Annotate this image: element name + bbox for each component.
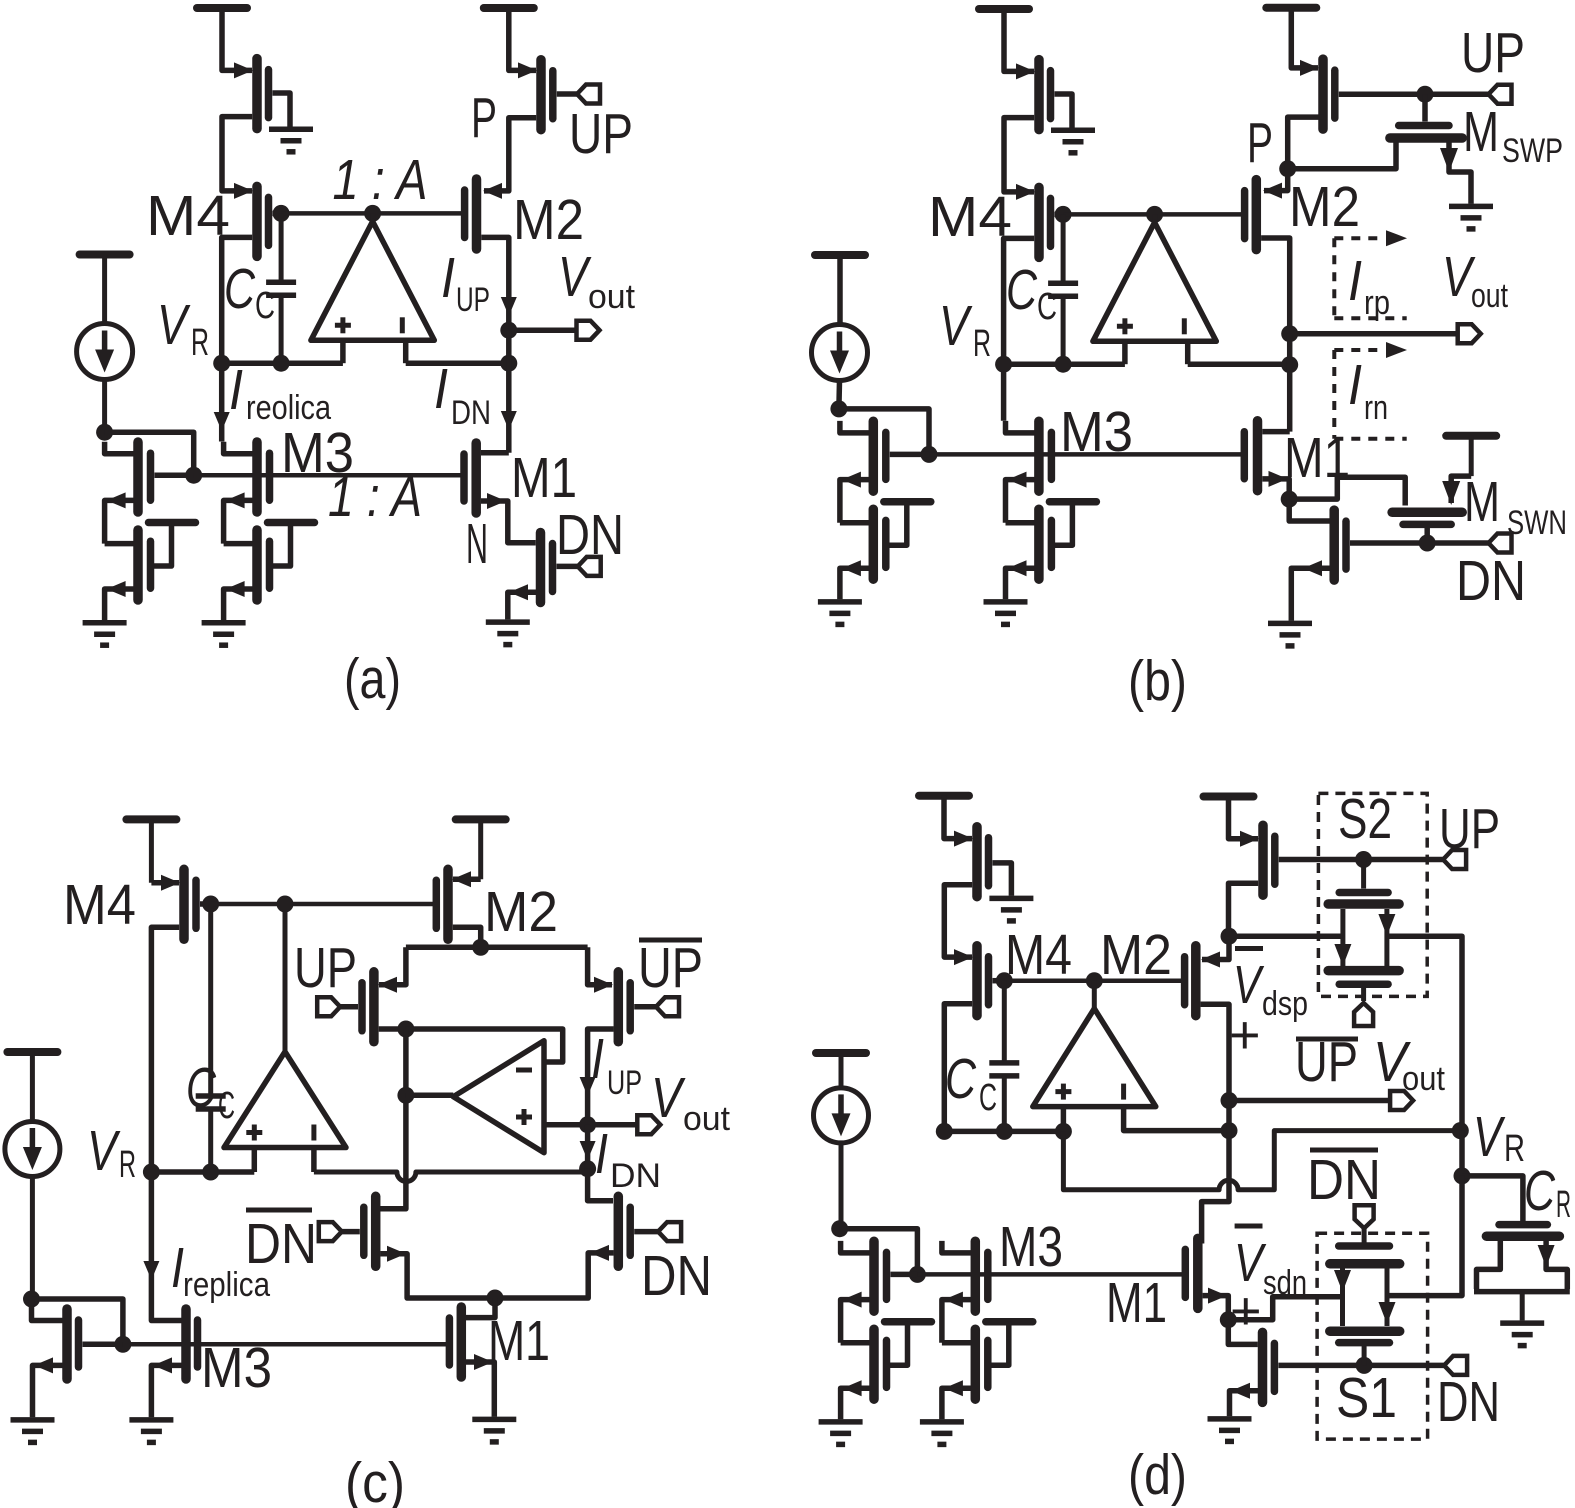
wire (c) M2 source <box>452 871 481 887</box>
svg-text:I: I <box>591 1027 604 1091</box>
wire (d) opamp minus input <box>1124 1107 1229 1131</box>
svg-text:M2: M2 <box>1289 175 1360 239</box>
svg-text:R: R <box>191 322 209 364</box>
svg-text:I: I <box>441 246 455 310</box>
label S1 (d) <box>1336 1366 1397 1430</box>
transistor M4 label (a) <box>146 184 230 248</box>
node dot (b) DN gate <box>1419 535 1436 552</box>
wire (b) DN source <box>1291 560 1329 621</box>
label DN switch (c) <box>641 1244 712 1308</box>
wire (a) opamp minus input <box>403 340 409 363</box>
svg-text:UP: UP <box>1461 21 1525 85</box>
wire (c) diode NMOS gate <box>83 1342 123 1348</box>
wire (b) M2 drain <box>1261 238 1290 334</box>
transistor DN switch (b) <box>1334 510 1346 580</box>
svg-text:rp: rp <box>1364 284 1390 322</box>
(b) left mirror wire drain top <box>840 421 869 433</box>
svg-text:(c): (c) <box>345 1451 405 1508</box>
node dot (d) minus junction <box>1221 1122 1238 1139</box>
svg-text:M1: M1 <box>1106 1271 1167 1335</box>
label DNbar (c) <box>245 1210 317 1276</box>
wire (c) M1 source <box>466 1354 494 1417</box>
ground (b) output branch <box>1268 623 1312 646</box>
wire (a) UP gate <box>557 91 577 97</box>
svg-text:DN: DN <box>1456 549 1526 613</box>
VDD rail (c current source) <box>7 1052 57 1121</box>
transistor M2 label (d) <box>1100 923 1172 987</box>
svg-text:1 : A: 1 : A <box>328 465 422 529</box>
transistor diode PMOS (b) <box>1039 60 1051 130</box>
label VR (d) <box>1473 1105 1525 1170</box>
svg-text:V: V <box>939 294 973 358</box>
svg-text:M4: M4 <box>146 184 230 248</box>
wire (c) opamp plus input <box>252 1148 258 1173</box>
wire (a) DN gate <box>557 564 578 570</box>
transistor DN switch (c) <box>618 1196 630 1266</box>
(a) left mirror bias bar <box>149 523 196 567</box>
wire (a) M1 source <box>481 493 536 543</box>
transistor UPbar switch (c) <box>618 972 630 1042</box>
svg-text:I: I <box>595 1122 608 1186</box>
ground (c) M3 <box>129 1420 173 1443</box>
(b) left mirror cascode NMOS (top) <box>873 421 886 491</box>
wire (d) M4 drain to VR <box>944 1004 972 1132</box>
transistor M2 (b) <box>1245 180 1257 250</box>
(d) M3 wire drain top <box>942 1241 971 1253</box>
label 1:A top (a) <box>333 148 428 212</box>
label CC (a) <box>224 257 275 327</box>
svg-text:+: + <box>1230 1281 1262 1341</box>
node dot (c) M1 drain <box>487 1290 504 1307</box>
transistor M4 (b) <box>1039 187 1051 257</box>
(a) M3 bias bar <box>268 523 315 567</box>
svg-text:C: C <box>979 1077 997 1119</box>
transistor M4 label (c) <box>63 873 136 937</box>
(b) M3 wire drain top <box>1006 421 1035 433</box>
wire (a) diode PMOS gate to ground <box>273 93 291 127</box>
svg-text:S2: S2 <box>1338 787 1392 851</box>
wire (c) M1 drain <box>466 1298 495 1318</box>
node dot (c) M4 gate <box>202 896 219 913</box>
node dot (d) Vsdn <box>1220 1311 1237 1328</box>
transistor M2 label (b) <box>1289 175 1360 239</box>
label DN (d) <box>1437 1370 1500 1434</box>
svg-text:C: C <box>218 1085 235 1127</box>
label CC (d) <box>945 1047 997 1119</box>
label Vout (b) <box>1442 245 1508 315</box>
(b) M3 cascode NMOS (top) <box>1039 421 1052 491</box>
node dot (b) mirror input <box>830 400 847 417</box>
wire (c) DNbar source <box>381 1246 496 1298</box>
terminal DN (b) <box>1489 534 1512 553</box>
(b) left mirror bias bar <box>884 502 931 546</box>
(b) M3 wire source bottom <box>1006 560 1035 599</box>
svg-text:M1: M1 <box>488 1309 550 1373</box>
VDD rail (c left) <box>126 819 176 882</box>
ground (d) CR <box>1500 1323 1544 1346</box>
wire (c) gate rail <box>123 1342 450 1347</box>
label P (b) <box>1247 111 1273 175</box>
wire (a) DN source <box>508 584 536 619</box>
wire (d) diode PMOS gate to ground <box>993 863 1012 896</box>
svg-text:UP: UP <box>1439 797 1500 861</box>
terminal DN (c) <box>658 1222 681 1241</box>
wire (a) M2 drain IUP <box>481 237 517 330</box>
node dot (c) IDN node <box>579 1160 596 1177</box>
transistor M1 (b) <box>1244 421 1257 491</box>
terminal UP (b) <box>1489 85 1512 104</box>
svg-text:P: P <box>471 86 497 150</box>
wire (c) buffer plus stub <box>544 1122 588 1128</box>
current source (d) <box>814 1088 869 1229</box>
svg-text:C: C <box>1524 1159 1556 1223</box>
svg-text:DN: DN <box>451 394 491 432</box>
wire (b) mirror input to gate rail <box>839 409 929 455</box>
label MSWN (b) <box>1464 470 1567 542</box>
wire (d) UP switch source <box>1229 797 1260 847</box>
wire (a) mirror input to gate rail <box>105 432 194 475</box>
VDD rail (d main) <box>919 796 969 839</box>
(a) left mirror ground <box>83 623 127 646</box>
wire (a) M4 drain to VR <box>222 237 253 363</box>
wire (c) DN gate <box>634 1229 658 1235</box>
terminal Vout (a) <box>577 321 600 340</box>
label UP (d) <box>1439 797 1500 861</box>
wire (c) diode NMOS source <box>33 1357 63 1417</box>
node dot (a) Vout minus <box>500 355 517 372</box>
transistor DN switch (d) <box>1263 1332 1275 1402</box>
wire (d) UP drain to P <box>1229 883 1259 936</box>
wire (b) diode PMOS source <box>1004 9 1035 79</box>
wire (d) M2 drain <box>1201 1004 1229 1100</box>
VDD rail (b right) <box>1266 8 1316 68</box>
svg-text:(d): (d) <box>1128 1443 1187 1507</box>
wire (c) UP source branch <box>378 947 406 992</box>
current Irp (b) <box>1334 230 1407 318</box>
svg-text:I: I <box>229 358 243 422</box>
terminal UPbar gate (c) <box>317 997 340 1016</box>
wire (c) mirror input to gate rail <box>32 1299 123 1344</box>
svg-text:DN: DN <box>610 1157 661 1195</box>
wire (b) DN gate <box>1350 540 1489 546</box>
svg-text:C: C <box>255 285 275 327</box>
wire (d) VR staircase hop <box>1063 1131 1460 1190</box>
wire (c) M4 gate <box>200 901 211 907</box>
node dot (a) M4 gate <box>273 205 290 222</box>
wire (a) I_replica <box>214 363 230 441</box>
svg-text:1 : A: 1 : A <box>333 148 428 212</box>
wire (d) Vsdn to S1 <box>1228 1297 1342 1320</box>
svg-text:M1: M1 <box>1284 426 1350 490</box>
wire (a) diode PMOS drain to M4 <box>222 117 253 199</box>
wire (c) diode NMOS drain <box>32 1299 63 1321</box>
transistor UP switch (c) <box>362 972 374 1042</box>
wire (a) diode PMOS source <box>222 8 253 78</box>
label Vdsp (d) <box>1229 949 1308 1066</box>
svg-text:M: M <box>1464 470 1500 534</box>
wire (b) diode PMOS drain to M4 <box>1004 118 1035 200</box>
(b) left mirror wire source top <box>840 472 869 523</box>
wire (c) Vout to DN <box>580 1125 596 1169</box>
(a) M3 ground <box>202 623 246 646</box>
capacitor CC (d) <box>989 981 1019 1132</box>
(d) left mirror ground <box>819 1422 863 1445</box>
svg-text:dsp: dsp <box>1262 985 1308 1023</box>
svg-text:V: V <box>558 245 592 309</box>
svg-text:C: C <box>945 1047 977 1111</box>
transistor M1 (c) <box>449 1307 461 1377</box>
wire (c) Vout <box>588 1122 638 1128</box>
svg-text:SWN: SWN <box>1507 504 1567 542</box>
wire (d) VR down <box>1459 1131 1465 1176</box>
wire (b) MSWP left lead to P <box>1288 142 1396 169</box>
ground (c) left <box>11 1420 55 1443</box>
node dot (c) CC bottom <box>202 1164 219 1181</box>
svg-text:UP: UP <box>456 281 490 319</box>
(b) M3 bias bar <box>1049 502 1096 546</box>
label N (a) <box>466 512 488 576</box>
node dot (a) gate rail <box>185 467 202 484</box>
wire (a) M4 gate <box>273 211 282 217</box>
label 1:A bottom (a) <box>328 465 422 529</box>
current source (c) <box>5 1122 60 1300</box>
node dot (a) Vout <box>500 322 517 339</box>
svg-text:UP: UP <box>294 936 357 1000</box>
label UP switch (c) <box>294 936 357 1000</box>
label UPbar Vout (d) <box>1295 1030 1446 1098</box>
capacitor CR mos (d) <box>1474 1225 1570 1321</box>
node dot (b) VR <box>995 356 1012 373</box>
ground (d) output branch <box>1208 1419 1252 1442</box>
dashed box S1 (d) <box>1317 1233 1428 1439</box>
op-amp (c) buffer <box>453 1041 544 1153</box>
svg-text:M2: M2 <box>513 188 584 252</box>
node dot (d) P node <box>1221 928 1238 945</box>
wire (a) gate rail top <box>281 211 465 216</box>
(d) left mirror cascode NMOS (bottom) <box>874 1329 887 1399</box>
(d) left mirror wire source top <box>841 1292 870 1343</box>
node dot (b) opamp output <box>1146 206 1163 223</box>
node dot (b) gate rail <box>921 446 938 463</box>
node dot (d) VR mid <box>936 1123 953 1140</box>
wire (a) mirror gate rail <box>194 473 464 478</box>
wire (d) left mirror gate <box>891 1272 918 1278</box>
ground (b) diode PMOS gate <box>1051 130 1095 153</box>
label MSWP (b) <box>1463 100 1563 170</box>
transistor M4 (d) <box>977 946 989 1016</box>
transistor M1 (d) <box>1185 1238 1198 1308</box>
VDD rail (b current source) <box>815 255 865 325</box>
wire (d) S2 left <box>1229 933 1343 939</box>
wire (b) UP switch source <box>1291 8 1319 76</box>
svg-text:C: C <box>186 1056 217 1120</box>
svg-text:M4: M4 <box>1005 923 1072 987</box>
wire (d) diode PMOS drain to M4 <box>944 885 973 965</box>
dashed box S2 (d) <box>1318 793 1427 996</box>
transistor MSWN (b) <box>1392 512 1462 524</box>
(a) left mirror wire source top <box>105 492 134 543</box>
transistor M3 label (b) <box>1060 400 1133 464</box>
node dot (d) UP gate <box>1355 851 1372 868</box>
svg-text:UP: UP <box>638 936 703 1000</box>
current Irn (b) <box>1334 342 1407 439</box>
node dot (d) plus input <box>1055 1123 1072 1140</box>
transistor M2 (c) <box>436 869 448 939</box>
(d) M3 wire source top <box>942 1292 971 1343</box>
wire (d) Vout <box>1229 1098 1390 1104</box>
label IUP (a) <box>441 246 490 319</box>
(a) M3 wire source top <box>224 492 253 543</box>
terminal DN (d) <box>1444 1356 1467 1375</box>
capacitor CC (b) <box>1048 214 1078 364</box>
wire (c) opamp minus input <box>311 1148 317 1173</box>
wire (d) DN source <box>1230 1383 1259 1416</box>
wire (c) UP gate <box>340 1004 358 1010</box>
wire (c) M4 drain to VR <box>151 927 179 1172</box>
(a) M3 cascode NMOS (top) <box>257 442 270 512</box>
svg-text:C: C <box>1037 286 1057 328</box>
node dot (b) M1 source <box>1281 491 1298 508</box>
wire (c) M4 source <box>151 875 180 891</box>
wire (d) gate rail top <box>1004 978 1184 983</box>
node dot (d) gate rail <box>909 1266 926 1283</box>
transistor DN switch (a) <box>541 533 553 603</box>
svg-text:(b): (b) <box>1128 649 1187 713</box>
node dot (c) mirror input <box>23 1291 40 1308</box>
wire (a) Vout to M1 <box>501 330 517 453</box>
label DN (a) <box>556 503 624 567</box>
(a) M3 cascode NMOS (bottom) <box>257 530 270 600</box>
wire (c) buffer out wire <box>406 1093 453 1099</box>
wire (d) M1 source <box>1203 1288 1229 1320</box>
(b) M3 ground <box>984 602 1028 625</box>
transistor M4 label (d) <box>1005 923 1072 987</box>
capacitor CC (a) <box>266 213 296 363</box>
label VR (a) <box>157 293 209 364</box>
label Ireplica (c) <box>171 1236 270 1304</box>
node dot (b) M4 gate <box>1055 206 1072 223</box>
transistor diode PMOS (a) <box>257 59 269 129</box>
node dot (b) UP gate <box>1417 86 1434 103</box>
node dot (b) P <box>1279 160 1296 177</box>
wire (b) UP gate <box>1339 91 1489 97</box>
label IUP (c) <box>591 1027 642 1102</box>
svg-text:DN: DN <box>1437 1370 1500 1434</box>
(d) left mirror wire source bottom <box>841 1380 870 1419</box>
wire (a) opamp plus input <box>340 340 346 363</box>
switch S1 (d) <box>1330 1228 1400 1365</box>
svg-text:R: R <box>1504 1128 1525 1170</box>
svg-text:C: C <box>224 257 256 321</box>
VDD rail (a main) <box>197 8 247 70</box>
wire (c) UPbar drain to Vout <box>580 1029 614 1125</box>
transistor M3 label (d) <box>999 1215 1063 1279</box>
node dot (c) Vout <box>579 1116 596 1133</box>
(b) left mirror ground <box>818 602 862 625</box>
wire (c) buffer node to minus <box>406 1029 563 1062</box>
transistor M3 label (c) <box>201 1336 272 1400</box>
svg-text:out: out <box>588 278 636 316</box>
terminal DNbar S1 (d) <box>1355 1205 1374 1228</box>
(a) M3 wire drain top <box>224 442 253 454</box>
wire (d) VR to S1 <box>1387 1176 1462 1296</box>
wire (d) M4 gate <box>993 978 1005 984</box>
wire (d) CR wire <box>1462 1176 1523 1221</box>
svg-text:out: out <box>683 1100 731 1138</box>
wire (c) VR rail <box>151 1169 254 1175</box>
transistor diode PMOS (d) <box>977 827 989 897</box>
transistor M1 label (d) <box>1106 1271 1167 1335</box>
svg-text:DN: DN <box>556 503 624 567</box>
label P (a) <box>471 86 497 150</box>
wire (a) UP switch source <box>509 8 537 78</box>
(a) left mirror cascode NMOS (top) <box>138 442 151 512</box>
svg-text:M4: M4 <box>928 185 1012 249</box>
(a) M3 wire drain bottom <box>224 541 253 547</box>
transistor M3 (c) <box>186 1309 198 1379</box>
label (c) <box>345 1451 405 1508</box>
wire (b) minus rail to Vout <box>1188 361 1290 367</box>
wire (b) M4 drain to VR <box>1004 238 1035 364</box>
label DNbar (d) <box>1307 1148 1381 1212</box>
(b) M3 wire drain bottom <box>1006 520 1035 526</box>
(d) left mirror cascode NMOS (top) <box>874 1241 887 1311</box>
node dot (d) DN gate <box>1356 1357 1373 1374</box>
label CC (c) <box>186 1056 235 1127</box>
wire (b) MSWN right lead <box>1442 476 1471 505</box>
transistor UP switch (d) <box>1263 825 1275 895</box>
(d) M3 wire drain bottom <box>942 1340 971 1346</box>
transistor M2 label (a) <box>513 188 584 252</box>
(a) left mirror wire drain bottom <box>105 541 134 547</box>
svg-text:M4: M4 <box>63 873 136 937</box>
(a) left mirror wire source bottom <box>105 581 134 620</box>
wire (b) MSWN gate stem <box>1424 528 1430 543</box>
node dot (c) gate rail <box>114 1336 131 1353</box>
svg-text:V: V <box>157 293 191 357</box>
wire (c) UP drain <box>379 1026 406 1032</box>
svg-text:R: R <box>973 323 991 365</box>
wire (b) M4 gate <box>1055 212 1064 218</box>
svg-text:C: C <box>1006 258 1038 322</box>
wire (c) M2 drain <box>453 927 481 947</box>
node dot (a) VR <box>213 355 230 372</box>
(a) M3 wire source bottom <box>224 581 253 620</box>
wire (b) MSWP right lead to ground <box>1440 142 1471 204</box>
svg-text:M3: M3 <box>999 1215 1063 1279</box>
wire (a) minus rail to Vout <box>406 360 509 366</box>
wire (b) Vout to M1 <box>1287 334 1293 432</box>
node dot (c) buffer out <box>397 1087 414 1104</box>
label IDN (c) <box>595 1122 661 1195</box>
ground (a) diode PMOS gate <box>269 129 313 152</box>
wire (b) DN switch drain <box>1289 499 1329 521</box>
wire (b) gate rail top <box>1063 212 1245 217</box>
transistor M1 (a) <box>464 443 476 513</box>
svg-text:M1: M1 <box>511 446 577 510</box>
wire (a) Vout <box>509 327 577 333</box>
wire (b) MSWP gate stem <box>1422 94 1428 121</box>
svg-text:V: V <box>651 1066 686 1130</box>
(d) left mirror wire drain top <box>841 1241 870 1253</box>
svg-text:(a): (a) <box>344 647 401 711</box>
svg-text:UP: UP <box>569 102 633 166</box>
wire (d) M2 source <box>1201 936 1229 967</box>
transistor UP switch (b) <box>1323 59 1335 129</box>
terminal DNbar (c) <box>319 1222 342 1241</box>
svg-text:UP: UP <box>607 1064 642 1102</box>
transistor M2 label (c) <box>484 880 558 944</box>
